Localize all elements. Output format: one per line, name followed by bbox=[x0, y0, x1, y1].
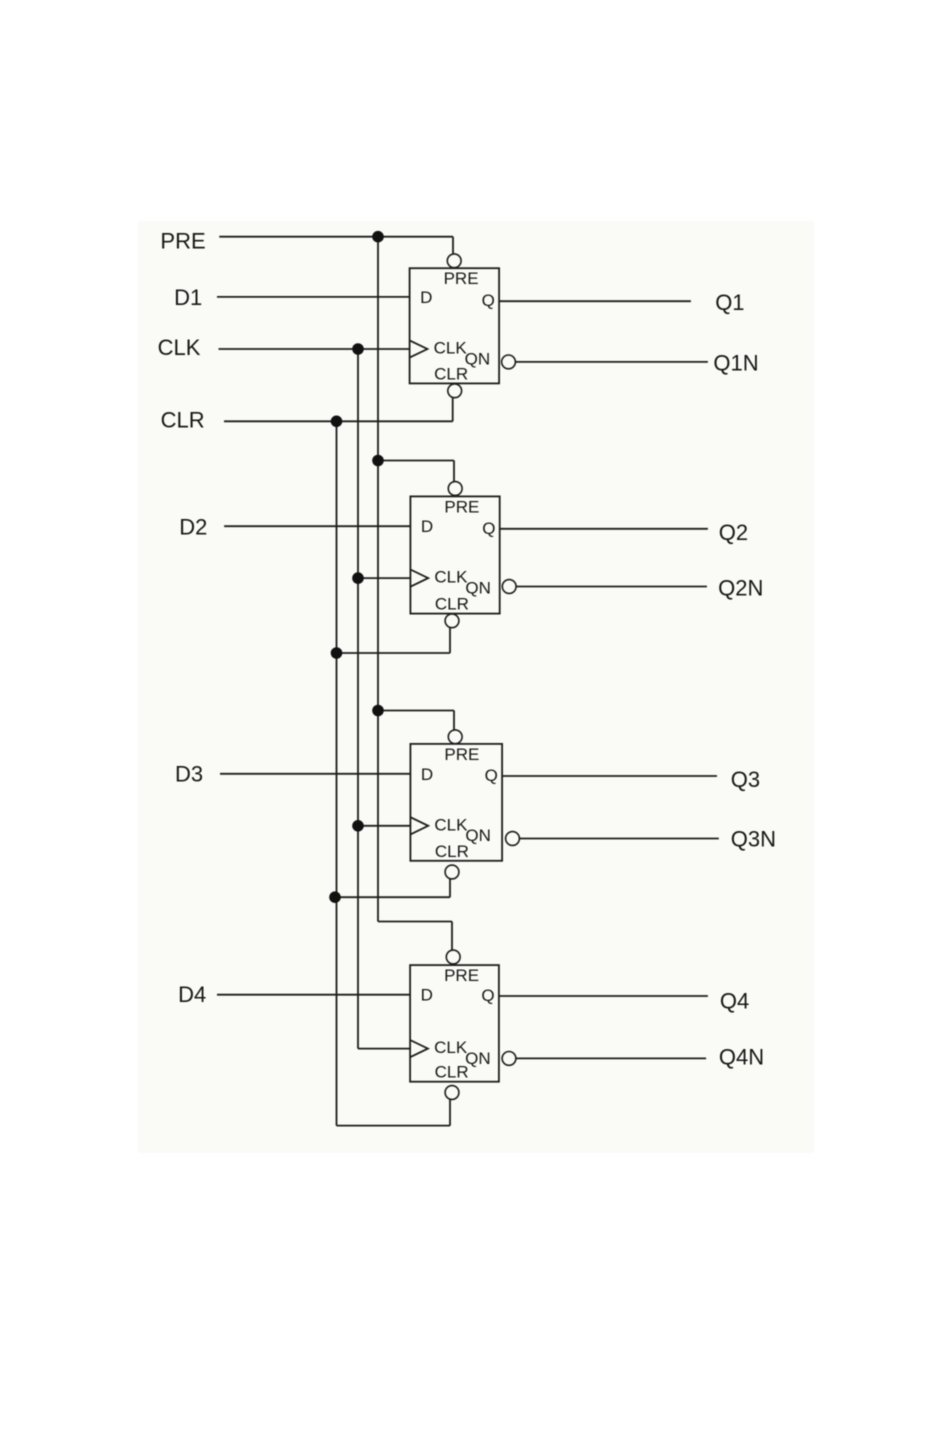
svg-text:PRE: PRE bbox=[444, 497, 479, 516]
svg-text:D: D bbox=[421, 517, 433, 536]
svg-text:Q2N: Q2N bbox=[718, 575, 763, 600]
svg-text:D: D bbox=[420, 288, 432, 307]
svg-text:D: D bbox=[421, 765, 433, 784]
svg-text:Q4: Q4 bbox=[720, 988, 749, 1013]
svg-text:D2: D2 bbox=[179, 515, 207, 540]
svg-text:D1: D1 bbox=[174, 285, 202, 310]
svg-text:Q: Q bbox=[482, 291, 495, 310]
svg-text:QN: QN bbox=[465, 1049, 491, 1068]
svg-text:QN: QN bbox=[465, 349, 491, 368]
svg-text:CLR: CLR bbox=[435, 842, 469, 861]
svg-text:PRE: PRE bbox=[444, 745, 479, 764]
svg-text:Q1: Q1 bbox=[715, 290, 744, 315]
svg-text:Q4N: Q4N bbox=[719, 1044, 764, 1069]
svg-text:D3: D3 bbox=[175, 761, 203, 786]
svg-text:CLK: CLK bbox=[158, 335, 201, 360]
svg-text:PRE: PRE bbox=[444, 269, 479, 288]
svg-text:CLK: CLK bbox=[434, 339, 468, 358]
svg-text:CLK: CLK bbox=[434, 1038, 468, 1057]
svg-text:QN: QN bbox=[465, 826, 491, 845]
svg-text:CLK: CLK bbox=[434, 568, 468, 587]
svg-text:CLR: CLR bbox=[435, 595, 469, 614]
svg-text:Q3: Q3 bbox=[731, 767, 760, 792]
svg-text:CLR: CLR bbox=[435, 1063, 469, 1082]
svg-text:CLR: CLR bbox=[161, 408, 205, 433]
svg-text:Q: Q bbox=[482, 519, 495, 538]
svg-text:CLK: CLK bbox=[434, 815, 468, 834]
svg-text:D4: D4 bbox=[178, 982, 206, 1007]
svg-text:Q3N: Q3N bbox=[731, 826, 776, 851]
svg-text:PRE: PRE bbox=[160, 229, 205, 254]
svg-text:Q1N: Q1N bbox=[713, 351, 758, 376]
svg-text:QN: QN bbox=[465, 578, 491, 597]
svg-text:Q: Q bbox=[485, 766, 498, 785]
svg-text:Q: Q bbox=[481, 986, 494, 1005]
svg-text:PRE: PRE bbox=[444, 966, 479, 985]
svg-text:CLR: CLR bbox=[434, 364, 468, 383]
svg-text:Q2: Q2 bbox=[719, 520, 748, 545]
svg-text:D: D bbox=[421, 986, 433, 1005]
